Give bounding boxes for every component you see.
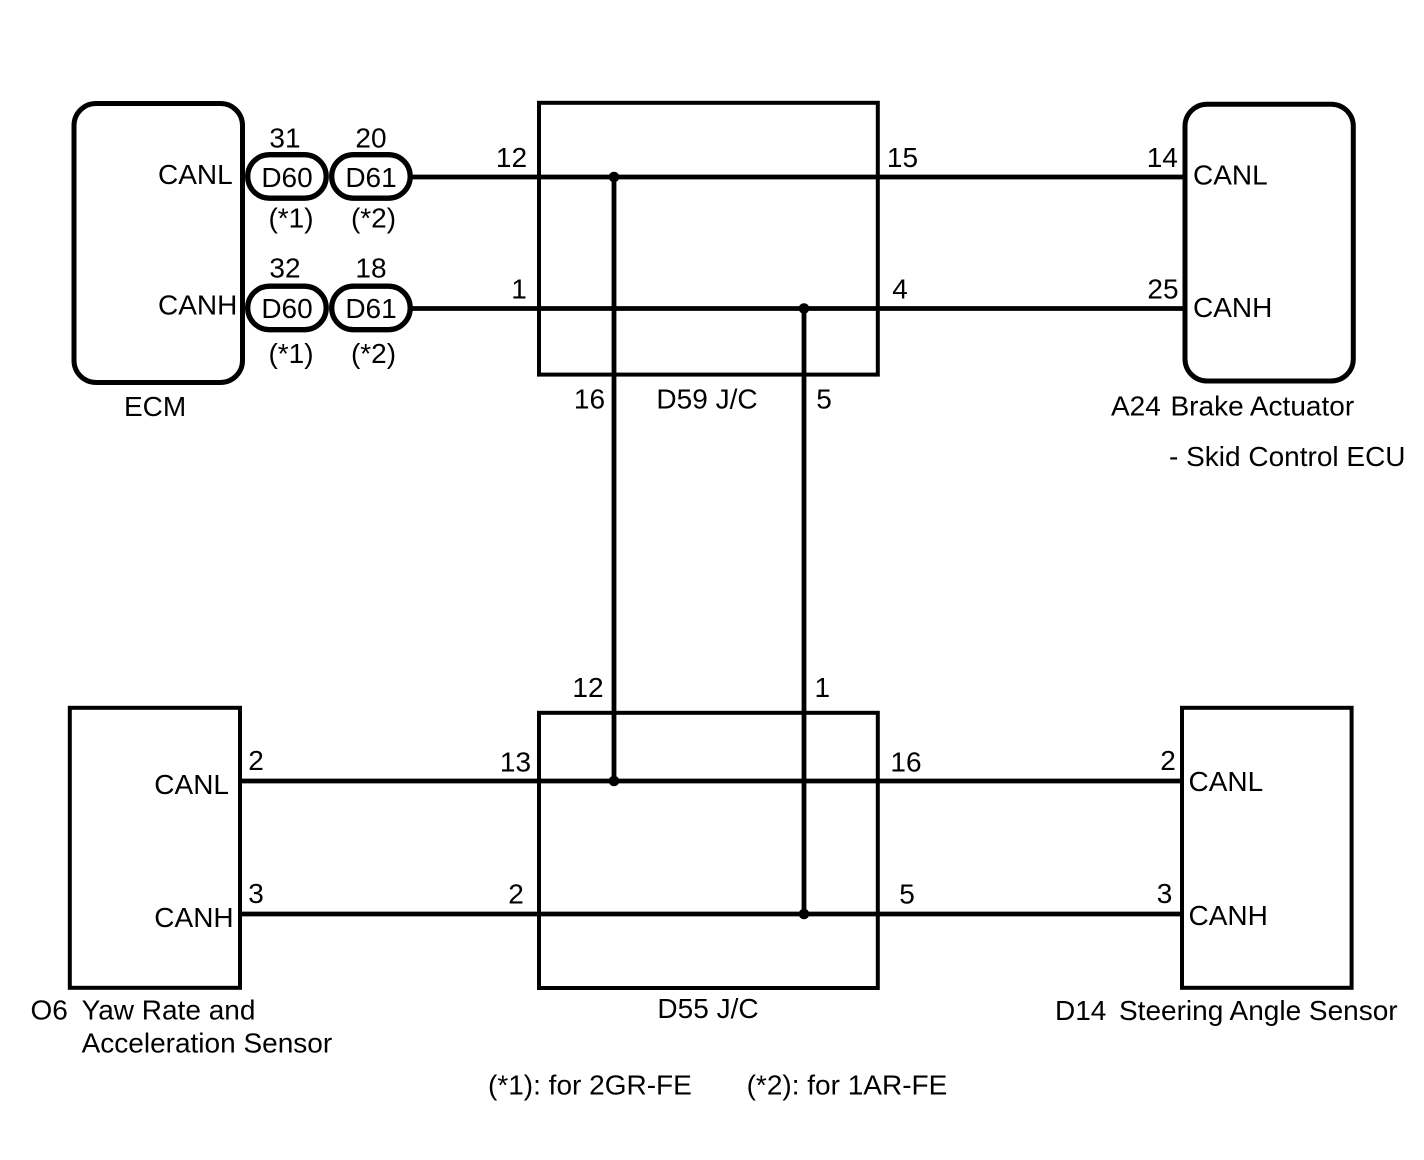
svg-text:CANL: CANL: [154, 769, 229, 800]
svg-text:3: 3: [1157, 878, 1173, 909]
svg-text:D60: D60: [261, 162, 312, 193]
svg-text:18: 18: [355, 253, 386, 284]
svg-text:15: 15: [887, 142, 918, 173]
junction dot CANH in D55: [799, 909, 810, 920]
svg-text:D61: D61: [345, 293, 396, 324]
svg-text:D59 J/C: D59 J/C: [656, 384, 757, 415]
svg-text:(*1): (*1): [268, 338, 313, 369]
svg-text:2: 2: [248, 745, 264, 776]
wire CANL bottom (O6 to D14): [242, 779, 1181, 784]
svg-text:2: 2: [1160, 745, 1176, 776]
ECM block: [74, 104, 243, 383]
svg-text:D14: D14: [1055, 995, 1106, 1026]
svg-text:CANL: CANL: [1189, 766, 1264, 797]
svg-text:4: 4: [892, 274, 908, 305]
junction connector D55 J/C box: [539, 713, 878, 988]
svg-text:D60: D60: [261, 293, 312, 324]
svg-text:12: 12: [572, 672, 603, 703]
svg-text:5: 5: [816, 384, 832, 415]
svg-text:D61: D61: [345, 162, 396, 193]
svg-text:1: 1: [511, 274, 527, 305]
svg-text:Steering Angle Sensor: Steering Angle Sensor: [1119, 995, 1398, 1026]
wire CANH bottom (O6 to D14): [242, 912, 1181, 917]
svg-text:A24: A24: [1111, 391, 1161, 422]
svg-text:D55 J/C: D55 J/C: [657, 993, 758, 1024]
svg-text:(*2): for 1AR-FE: (*2): for 1AR-FE: [747, 1070, 948, 1101]
svg-text:ECM: ECM: [124, 391, 186, 422]
svg-text:1: 1: [815, 672, 831, 703]
svg-text:CANL: CANL: [158, 159, 233, 190]
svg-text:32: 32: [269, 253, 300, 284]
svg-text:(*2): (*2): [351, 338, 396, 369]
svg-text:(*2): (*2): [351, 203, 396, 234]
wire vertical CANH branch (D59 pin 5 to D55 pin 1): [802, 309, 807, 915]
connector D60 (CANH, pin 32): [248, 286, 327, 330]
junction connector D59 J/C box: [539, 103, 878, 375]
O6 Yaw Rate and Acceleration Sensor block: [70, 708, 240, 988]
svg-text:12: 12: [496, 142, 527, 173]
svg-text:Brake Actuator: Brake Actuator: [1171, 391, 1355, 422]
svg-text:CANH: CANH: [158, 290, 237, 321]
svg-text:14: 14: [1147, 142, 1178, 173]
svg-text:5: 5: [899, 879, 915, 910]
svg-text:CANL: CANL: [1193, 160, 1268, 191]
svg-text:- Skid Control ECU: - Skid Control ECU: [1169, 441, 1406, 472]
svg-text:20: 20: [355, 123, 386, 154]
svg-text:3: 3: [248, 878, 264, 909]
svg-text:Yaw Rate and: Yaw Rate and: [82, 995, 256, 1026]
junction dot CANL in D55: [609, 776, 620, 787]
wire CANH top (D61 to A24): [409, 306, 1184, 311]
svg-text:31: 31: [269, 123, 300, 154]
junction dot CANL in D59: [609, 172, 620, 183]
wire CANL top (D61 to A24): [409, 175, 1184, 180]
svg-text:16: 16: [574, 384, 605, 415]
connector D61 (CANL, pin 20): [332, 155, 411, 199]
D14 Steering Angle Sensor block: [1182, 708, 1352, 988]
svg-text:CANH: CANH: [1193, 292, 1272, 323]
connector D61 (CANH, pin 18): [332, 286, 411, 330]
svg-text:CANH: CANH: [1189, 900, 1268, 931]
junction dot CANH in D59: [799, 303, 810, 314]
svg-text:16: 16: [890, 747, 921, 778]
svg-text:2: 2: [508, 879, 524, 910]
svg-text:13: 13: [500, 747, 531, 778]
connector D60 (CANL, pin 31): [248, 155, 327, 199]
svg-text:CANH: CANH: [154, 902, 233, 933]
A24 Brake Actuator block: [1185, 104, 1353, 381]
svg-text:Acceleration Sensor: Acceleration Sensor: [82, 1028, 333, 1059]
wire vertical CANL branch (D59 pin 16 to D55 pin 12): [612, 177, 617, 781]
svg-text:O6: O6: [31, 995, 68, 1026]
svg-text:25: 25: [1147, 274, 1178, 305]
svg-text:(*1): (*1): [268, 203, 313, 234]
svg-text:(*1): for 2GR-FE: (*1): for 2GR-FE: [488, 1070, 692, 1101]
